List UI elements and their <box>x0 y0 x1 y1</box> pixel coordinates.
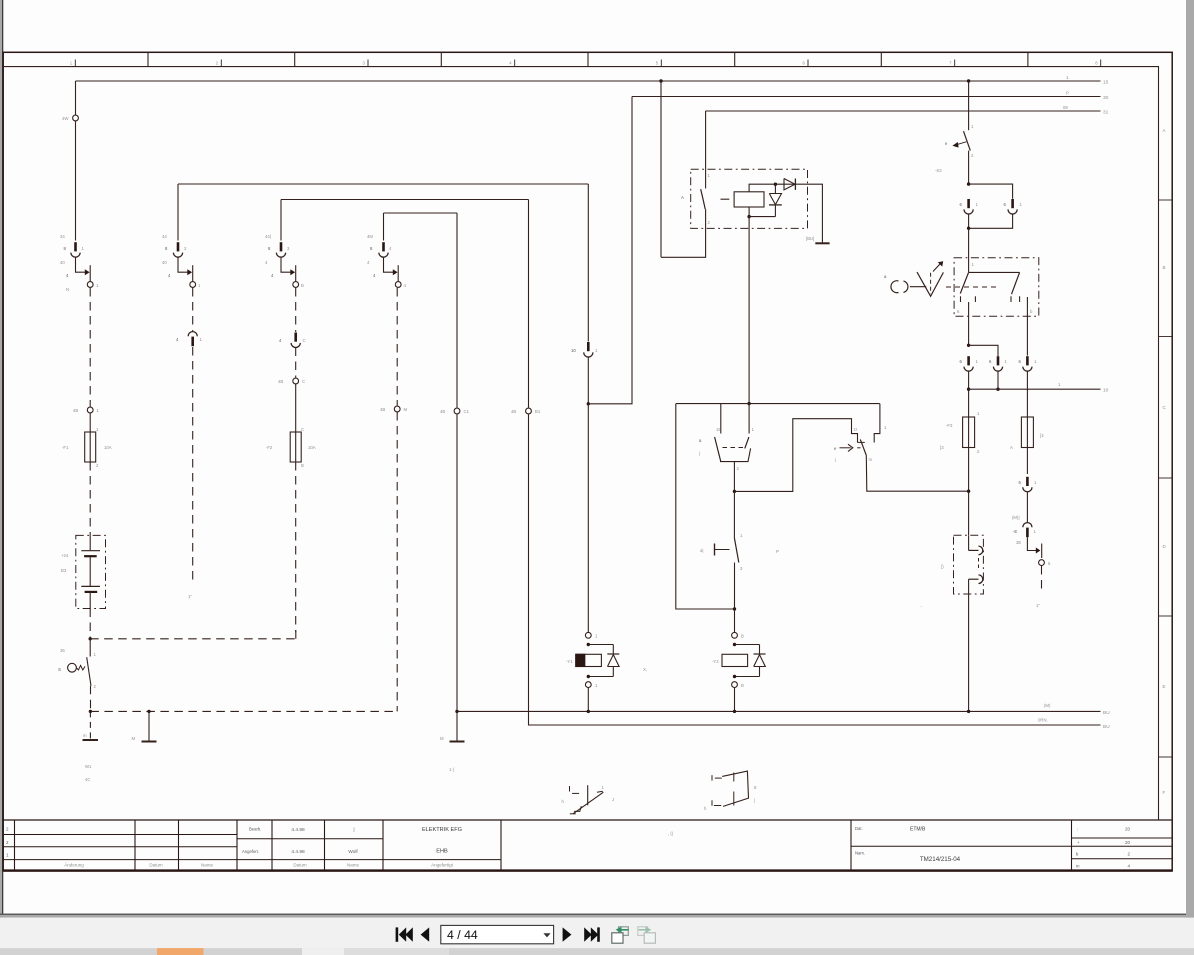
relay K1 mechanical link (dash) <box>721 198 730 200</box>
viewer background left strip <box>0 0 2 918</box>
node y389 right <box>996 388 999 391</box>
svg-text:··: ·· <box>920 604 923 609</box>
taskbar light segment <box>302 948 344 955</box>
terminal column3 <box>293 378 299 384</box>
svg-text:08: 08 <box>1063 105 1068 110</box>
connector X6 b (cup) <box>997 356 1000 365</box>
connector X7 link dashes <box>978 558 980 571</box>
wire column3 to fuse <box>295 384 297 432</box>
connector X7 lower contact <box>979 575 983 584</box>
wire pedal switch right pole down <box>1026 297 1028 356</box>
wire column3 feed horizontal <box>281 199 529 201</box>
relay K1 coil <box>734 192 764 207</box>
svg-text:EHB: EHB <box>436 849 448 855</box>
contact K2 changeover (dashed link trapezoid) <box>720 404 722 434</box>
svg-text:2: 2 <box>6 827 9 832</box>
svg-text:ELEKTRIK EFG: ELEKTRIK EFG <box>422 827 462 833</box>
svg-text:4.4.98: 4.4.98 <box>291 849 305 855</box>
wire column2 drop <box>177 184 179 241</box>
svg-text:B3: B3 <box>61 568 67 573</box>
svg-text:Wolf: Wolf <box>348 849 358 855</box>
svg-text:m: m <box>869 457 873 462</box>
svg-text:2: 2 <box>96 463 99 468</box>
svg-text:[): [) <box>941 564 944 569</box>
svg-text:Name: Name <box>347 863 360 868</box>
svg-text:2: 2 <box>216 61 219 66</box>
wire contact K2 to node <box>733 462 735 492</box>
wire coil bottom link <box>749 216 775 218</box>
terminal column4 <box>394 406 400 412</box>
switch S4 (arrow actuated) <box>858 441 865 443</box>
svg-text:1: 1 <box>595 348 598 353</box>
svg-text:-Y1: -Y1 <box>566 659 573 664</box>
svg-text:Bearb.: Bearb. <box>249 827 261 832</box>
svg-text:40: 40 <box>60 260 65 265</box>
svg-text:6: 6 <box>960 359 963 364</box>
battery G1 enclosure (dash-dot) <box>76 535 106 608</box>
wire x749 long drop to contact K2 <box>748 217 750 404</box>
svg-text:W1: W1 <box>85 764 92 769</box>
svg-text:4.4.98: 4.4.98 <box>291 827 305 833</box>
title block section B row <box>237 838 383 840</box>
svg-text:6: 6 <box>1004 202 1007 207</box>
wire column2 feed horizontal <box>178 183 588 185</box>
svg-text:m: m <box>83 733 87 738</box>
svg-text:-F2: -F2 <box>266 445 273 450</box>
wire x457 lower <box>456 414 458 711</box>
node loop bottom <box>733 607 736 610</box>
svg-text:1: 1 <box>6 853 9 858</box>
svg-text:B: B <box>301 463 304 468</box>
legend limit switch symbol <box>569 786 571 792</box>
title block section D row <box>851 845 1072 847</box>
svg-text:4: 4 <box>168 273 171 278</box>
svg-text:-S3: -S3 <box>935 168 942 173</box>
svg-text:a|: a| <box>700 548 704 553</box>
terminal Y2 bottom <box>732 682 738 688</box>
svg-text:8: 8 <box>754 785 757 790</box>
wire bus 31 (third horizontal) <box>706 110 1101 112</box>
node coil bottom <box>747 215 750 218</box>
svg-text:1: 1 <box>97 408 100 413</box>
svg-text:8: 8 <box>165 246 168 251</box>
svg-text:1: 1 <box>595 683 598 688</box>
svg-text:C: C <box>1163 405 1167 410</box>
title block section A rows <box>3 834 237 836</box>
wire S4 to y491 bus <box>866 455 968 491</box>
svg-text:M: M <box>440 736 444 741</box>
svg-text:B: B <box>1163 265 1166 270</box>
svg-text:4: 4 <box>176 337 179 342</box>
wire diode to ground <box>795 184 822 243</box>
battery G1 cells <box>89 535 91 550</box>
svg-text:1: 1 <box>971 124 974 129</box>
wire x968 below connector box <box>968 594 970 711</box>
svg-text:1: 1 <box>1034 359 1037 364</box>
ground relay (BU) <box>815 242 829 244</box>
switch S4 fixed contact bracket <box>874 404 880 443</box>
svg-text:, (): , () <box>668 831 674 836</box>
svg-text:S: S <box>58 667 61 672</box>
connector X8 upper (cup) <box>1026 477 1029 486</box>
svg-text:36: 36 <box>60 648 65 653</box>
node parallel cups bottom <box>967 227 970 230</box>
page bottom edge line <box>0 914 1186 915</box>
svg-text:D: D <box>1163 544 1167 549</box>
svg-text:1: 1 <box>972 262 975 267</box>
svg-text:2: 2 <box>94 684 97 689</box>
svg-text:1: 1 <box>82 246 85 251</box>
wire Y2 to bottom bus <box>734 688 736 712</box>
wire column3 dashed mid <box>295 348 297 378</box>
svg-text:6: 6 <box>1048 561 1051 566</box>
svg-text:|: | <box>353 827 354 833</box>
node ground bus W2 tap <box>147 710 150 713</box>
toolbar snapshot icon <box>619 927 629 936</box>
svg-text:4M: 4M <box>367 234 373 239</box>
wire loop node to Y2 <box>734 609 736 632</box>
wire left cup down <box>968 214 970 228</box>
svg-text:(M): (M) <box>1044 703 1051 708</box>
svg-text:2: 2 <box>184 246 187 251</box>
svg-text:[3: [3 <box>940 445 944 450</box>
frame column dividers <box>147 52 149 66</box>
svg-text:2: 2 <box>6 840 9 845</box>
wire left loop x675 <box>676 404 735 609</box>
node ground bus left <box>89 710 92 713</box>
svg-text:4: 4 <box>66 273 69 278</box>
node parallel cups top <box>967 182 970 185</box>
wire dashed link to column3 <box>90 638 296 640</box>
svg-text:4W: 4W <box>62 116 69 121</box>
wire column1 battery to key switch <box>89 609 91 639</box>
svg-text:A: A <box>1010 445 1013 450</box>
svg-text:8: 8 <box>1095 61 1098 66</box>
svg-text:2: 2 <box>1127 852 1130 857</box>
zener diode V2 (parallel) <box>774 184 776 193</box>
frame column mid ticks <box>74 60 76 67</box>
toolbar prev button <box>421 927 430 941</box>
terminal X1:1 <box>73 115 79 121</box>
svg-text:20: 20 <box>1125 840 1131 845</box>
svg-text:3: 3 <box>740 566 743 571</box>
svg-text:X,: X, <box>643 667 647 672</box>
svg-text:+24: +24 <box>61 553 69 558</box>
svg-text:[4: [4 <box>1040 433 1044 438</box>
svg-text:h: h <box>562 799 565 804</box>
fuse F3 <box>968 417 970 448</box>
svg-text:4B: 4B <box>440 409 445 414</box>
wire x588 vertical from feed <box>587 184 589 342</box>
wire to pedal switch box <box>968 228 970 272</box>
frame row dividers right margin <box>1159 199 1173 201</box>
toolbar snapshot icon disabled <box>638 927 648 936</box>
legend contact pair symbol <box>711 775 713 781</box>
node Y1 bottom bus <box>587 710 590 713</box>
svg-text:2: 2 <box>708 220 711 225</box>
svg-text:4B: 4B <box>278 379 283 384</box>
svg-text:4: 4 <box>373 273 376 278</box>
wire x588 to x632 riser to bus 30 <box>588 97 632 404</box>
svg-text:Name: Name <box>201 863 214 868</box>
wire x528 vertical <box>528 200 530 408</box>
svg-text:1: 1 <box>708 173 711 178</box>
node y389 left <box>967 388 970 391</box>
node x968 bottom bus <box>967 710 970 713</box>
wire x968 to fuse F3 <box>968 389 970 417</box>
svg-text:44|: 44| <box>265 234 271 239</box>
svg-text:B: B <box>741 683 744 688</box>
taskbar strip <box>0 948 1194 955</box>
svg-text:1: 1 <box>1034 529 1037 534</box>
svg-text:1: 1 <box>70 61 73 66</box>
svg-text:8: 8 <box>268 246 271 251</box>
svg-text:1: 1 <box>752 427 755 432</box>
wire x1041 dashed <box>1041 566 1043 593</box>
svg-text:a: a <box>884 274 887 279</box>
node bus15/K1 junction <box>659 79 662 82</box>
svg-text:0RN.: 0RN. <box>1038 718 1048 723</box>
wire x968 to connector box <box>968 491 970 535</box>
svg-text:1: 1 <box>740 533 743 538</box>
svg-text:1'': 1'' <box>1036 603 1040 608</box>
toolbar background <box>0 918 1194 949</box>
node zener tap <box>774 183 777 186</box>
svg-text:4: 4 <box>389 246 392 251</box>
svg-text:4B: 4B <box>511 409 516 414</box>
node x588/x632 junction <box>587 402 590 405</box>
drawing frame bottom heavy line <box>3 869 1172 871</box>
svg-text:-F3: -F3 <box>946 423 953 428</box>
svg-text:10A: 10A <box>104 445 112 450</box>
svg-text:4: 4 <box>404 283 407 288</box>
ground W2 <box>148 711 150 741</box>
svg-text:2: 2 <box>977 449 980 454</box>
svg-text:1: 1 <box>595 634 598 639</box>
wire pedal switch left pole down <box>968 302 970 345</box>
svg-text:4: 4 <box>279 338 282 343</box>
svg-text:6: 6 <box>957 309 960 314</box>
wire parallel branch bottom <box>969 214 1013 228</box>
node x457 ground bus <box>455 710 458 713</box>
svg-text:+: + <box>1077 840 1080 845</box>
wire x588 lower <box>587 357 589 404</box>
taskbar orange segment <box>157 948 204 955</box>
svg-text:C: C <box>302 379 305 384</box>
terminal Y1 bottom <box>585 682 591 688</box>
svg-text:B: B <box>741 634 744 639</box>
toolbar last-page button <box>584 927 592 941</box>
svg-text:1: 1 <box>94 652 97 657</box>
svg-text:6: 6 <box>989 359 992 364</box>
svg-text:F: F <box>1163 790 1166 795</box>
key switch S1 <box>89 639 91 657</box>
svg-text:b: b <box>1030 309 1033 314</box>
svg-text:15: 15 <box>1103 80 1109 86</box>
toolbar next button <box>563 927 572 941</box>
svg-text:1: 1 <box>1005 359 1008 364</box>
wire S3 drop from bus 15 <box>968 81 970 130</box>
wire column3 drop <box>280 200 282 241</box>
wire column2 dashed upper <box>192 288 194 331</box>
svg-text:31: 31 <box>1103 110 1109 116</box>
svg-text:TM214/215-04: TM214/215-04 <box>920 856 961 863</box>
svg-text:1": 1" <box>188 594 192 599</box>
svg-text:Datum: Datum <box>149 863 163 868</box>
svg-text:BU: BU <box>1103 724 1110 730</box>
wire column4 dashed to ground bus <box>396 412 398 711</box>
wire S3 to parallel cups <box>968 151 970 185</box>
svg-text:Nam.: Nam. <box>855 851 865 856</box>
svg-text:M: M <box>404 407 408 412</box>
svg-text:1: 1 <box>602 785 605 790</box>
svg-text:7: 7 <box>949 61 952 66</box>
svg-text:M: M <box>132 736 136 741</box>
svg-text:|: | <box>754 798 755 803</box>
wire column4 dashed upper <box>396 288 398 406</box>
svg-text:Änderung: Änderung <box>64 862 84 868</box>
title block section E rows <box>1072 837 1173 839</box>
wire bus y389 <box>969 388 1101 390</box>
title block verticals <box>14 820 16 871</box>
wire column2 dashed lower <box>192 347 194 583</box>
svg-text:2: 2 <box>971 153 974 158</box>
wire key switch to ground bus <box>90 686 92 712</box>
connector X7 upper contact <box>968 535 970 550</box>
svg-text:3: 3 <box>287 246 290 251</box>
svg-text:C: C <box>303 338 306 343</box>
wire column4 drop <box>383 213 385 241</box>
wire branch to x998 <box>969 345 998 356</box>
relay K1 contact <box>705 111 707 189</box>
node y491 junction <box>733 490 736 493</box>
connector column2 mid (cup, mating half) <box>188 332 197 337</box>
svg-text:4 / 44: 4 / 44 <box>447 928 478 942</box>
wire bus 30 (second horizontal) <box>632 96 1101 98</box>
svg-text:b: b <box>1076 852 1079 857</box>
svg-text:BU: BU <box>1103 710 1110 716</box>
svg-text:1: 1 <box>977 411 980 416</box>
relay K1 enclosure (dash-dot) <box>691 169 808 228</box>
wire x528 lower to bus 0V <box>529 414 1101 725</box>
svg-text:E: E <box>1163 684 1166 689</box>
terminal x528 <box>526 408 532 414</box>
svg-text:4: 4 <box>1127 864 1130 869</box>
pedal switch dashed link <box>946 286 1000 288</box>
svg-text:J: J <box>612 797 614 802</box>
wire coil bottom joins zener <box>748 207 750 217</box>
wire x661 to relay common <box>661 209 706 257</box>
ground W3 <box>456 711 458 741</box>
svg-text:1: 1 <box>884 425 887 430</box>
svg-text:2: 2 <box>737 466 740 471</box>
svg-text:4B: 4B <box>380 407 385 412</box>
svg-text:1: 1 <box>976 202 979 207</box>
terminal x457 <box>454 408 460 414</box>
ground W1 <box>89 711 91 738</box>
svg-text:[BU]: [BU] <box>806 236 814 241</box>
svg-text:1: 1 <box>96 427 99 432</box>
pedal switch enclosure (dash-dot) <box>954 258 1039 316</box>
svg-text:10: 10 <box>1103 388 1109 394</box>
connector X5 right (cup) <box>1011 199 1014 208</box>
pedal actuator circle <box>891 281 899 293</box>
wire x588 down to Y1 <box>587 404 589 632</box>
svg-text:N: N <box>66 287 69 292</box>
wire cups to y389 bus <box>968 371 970 389</box>
wire center horizontal y404 <box>676 403 880 405</box>
wire column1 to connector <box>75 121 77 241</box>
svg-text:3: 3 <box>363 61 366 66</box>
pressure contact mid (NO with T actuator) <box>733 491 735 538</box>
wire bus 15 (top horizontal) <box>76 80 1101 82</box>
wire Y1 to bottom bus <box>587 688 589 712</box>
toolbar first-page button <box>396 927 399 941</box>
svg-text:(M)|: (M)| <box>1012 515 1020 520</box>
svg-text:e: e <box>945 141 948 146</box>
svg-text:|: | <box>699 451 700 456</box>
svg-text:4B: 4B <box>73 408 78 413</box>
svg-text:h: h <box>704 806 707 811</box>
wire parallel branch top <box>969 184 1013 199</box>
wire dashed ground bus <box>90 710 397 712</box>
svg-text:1: 1 <box>96 283 99 288</box>
fuse F1 <box>89 432 91 462</box>
svg-text:34: 34 <box>60 234 65 239</box>
svg-text:ETM/B: ETM/B <box>910 827 926 833</box>
svg-text:1: 1 <box>1058 382 1061 387</box>
frame column header band bottom line and inner right border <box>3 67 1158 820</box>
svg-text:20: 20 <box>1125 827 1131 832</box>
svg-text:1: 1 <box>976 359 979 364</box>
svg-text:Datum: Datum <box>293 863 307 868</box>
node y491 right <box>967 490 970 493</box>
svg-text:15: 15 <box>716 427 721 432</box>
page left edge line <box>2 0 3 915</box>
svg-text:B: B <box>301 283 304 288</box>
wire column3 below fuse dashed <box>295 462 297 632</box>
node bus15/S3 junction <box>967 79 970 82</box>
svg-text:10: 10 <box>571 348 576 353</box>
wire x1027 to lower connector <box>1026 493 1028 523</box>
wire x457 vertical <box>456 213 458 408</box>
wire relay coil top to diode <box>749 184 795 192</box>
svg-text:1: 1 <box>1066 75 1069 80</box>
terminal Y1 top <box>585 632 591 638</box>
wire bottom bus BU (solid) <box>457 710 1101 712</box>
wire column1 drop from bus 15 <box>75 81 77 115</box>
wire column1 to fuse <box>89 413 91 432</box>
terminal column1 mid <box>87 407 93 413</box>
svg-text:40: 40 <box>162 260 167 265</box>
wire to S4 switch loop <box>734 419 857 492</box>
svg-text:A: A <box>1163 128 1166 133</box>
connector X7 enclosure (dash-dot) <box>954 535 984 594</box>
svg-text:-E: -E <box>1013 529 1017 534</box>
svg-text:6: 6 <box>1019 359 1022 364</box>
svg-text:5: 5 <box>656 61 659 66</box>
node column1 / dashed link <box>89 637 92 640</box>
svg-text:4C: 4C <box>85 777 91 782</box>
toolbar page combobox <box>441 925 554 943</box>
svg-text:e: e <box>834 446 837 451</box>
connector x588 (cup) <box>587 342 590 351</box>
svg-text::: : <box>1077 827 1078 832</box>
wire column1 dashed <box>89 288 91 407</box>
breaker S3 (arrow actuated) <box>964 131 971 150</box>
svg-text:Iz: Iz <box>854 427 857 432</box>
svg-text:m: m <box>1076 864 1080 869</box>
